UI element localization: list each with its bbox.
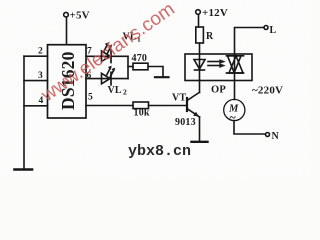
wire R2 to GND2 — [148, 67, 163, 77]
wire +12V to R1 — [198, 14, 200, 27]
transistor VT 9013 — [172, 92, 200, 128]
svg-text:+12V: +12V — [202, 7, 228, 19]
wire +5V to U1 pin top — [66, 17, 68, 45]
resistor R3 10k — [133, 102, 150, 119]
opto coupling arrows — [208, 60, 225, 68]
wire pin 6 — [86, 78, 128, 80]
label VL2 — [108, 85, 128, 97]
terminal L — [264, 25, 277, 36]
wire pin 3 — [24, 80, 48, 82]
wire pin 7 — [86, 55, 128, 57]
svg-text:VL: VL — [108, 85, 122, 96]
IC U1 DS1620 — [48, 45, 87, 118]
optocoupler OP box — [185, 54, 252, 96]
ground GND1 — [15, 168, 33, 171]
LED VL1 — [102, 43, 112, 63]
svg-text:3: 3 — [38, 71, 43, 81]
wire pin 4 — [24, 105, 48, 107]
svg-text:ybx8.cn: ybx8.cn — [128, 143, 191, 160]
junction node LED cathodes — [127, 56, 129, 78]
wire junction to R2 — [128, 66, 133, 68]
power terminal +12V — [196, 7, 228, 19]
ground bus left — [23, 56, 25, 169]
svg-text:VT: VT — [172, 93, 186, 104]
svg-text:10k: 10k — [134, 108, 150, 119]
svg-text:470: 470 — [132, 53, 148, 64]
wire collector to OP led cathode — [199, 81, 201, 93]
terminal N — [266, 131, 280, 142]
svg-text:R: R — [206, 31, 214, 42]
LED VL2 — [102, 66, 115, 85]
wire pin 5 — [86, 105, 133, 107]
svg-text:OP: OP — [211, 85, 226, 96]
power terminal +5V — [64, 10, 90, 22]
wire R1 to OP anode — [199, 43, 201, 60]
ground GND2 — [155, 76, 169, 78]
wire triac bottom to motor — [234, 73, 236, 100]
wire emitter to GND3 — [199, 117, 201, 142]
svg-text:N: N — [272, 131, 280, 142]
opto LED D1 — [194, 60, 205, 81]
label VL1 — [123, 32, 142, 44]
opto triac T1 — [227, 56, 244, 73]
svg-text:L: L — [270, 25, 277, 36]
motor M1 — [224, 99, 245, 124]
svg-text:+5V: +5V — [70, 10, 90, 22]
svg-text:5: 5 — [88, 93, 93, 103]
wire R3 to base of VT — [149, 105, 188, 107]
svg-text:2: 2 — [123, 88, 127, 97]
svg-text:~220V: ~220V — [252, 85, 283, 97]
wire pin 2 — [24, 55, 48, 57]
resistor R2 470 — [132, 53, 149, 70]
resistor R1 R — [196, 27, 214, 43]
svg-text:2: 2 — [38, 47, 43, 57]
svg-text:9013: 9013 — [175, 117, 196, 128]
svg-text:~: ~ — [230, 110, 237, 124]
wire triac top to terminal L — [235, 28, 264, 56]
ground GND3 — [192, 141, 208, 143]
wire motor to terminal N — [234, 121, 265, 135]
